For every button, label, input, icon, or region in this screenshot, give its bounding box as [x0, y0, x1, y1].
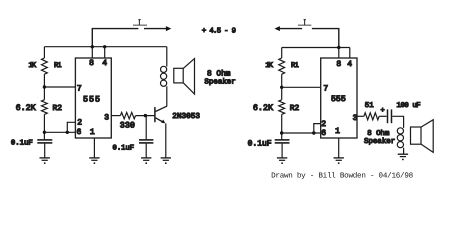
junction dot pin8 feed	[91, 45, 94, 48]
wire: right column top	[281, 48, 283, 59]
svg-text:8: 8	[89, 59, 94, 68]
wire: pin 6 line (right)	[282, 132, 321, 134]
svg-text:4: 4	[102, 59, 107, 68]
svg-text:0.1uF: 0.1uF	[248, 140, 272, 149]
wire: switch down to rail (right circuit)	[312, 29, 339, 48]
svg-text:+: +	[380, 107, 384, 115]
svg-text:2: 2	[321, 120, 326, 129]
resistor R1 1K (right)	[279, 58, 285, 74]
wire: pin 1 to ground (right)	[338, 138, 340, 158]
svg-text:4: 4	[347, 60, 352, 69]
wire: 330 to base	[136, 115, 155, 117]
speaker SP2 (right)	[411, 120, 434, 153]
svg-text:3: 3	[353, 114, 358, 123]
ground under emitter	[161, 158, 171, 164]
resistor 51	[364, 113, 379, 120]
svg-text:6.2K: 6.2K	[253, 103, 274, 113]
junction node pin7	[43, 85, 46, 88]
ground under pin 1 (right)	[334, 158, 344, 164]
wire: R1 to R2 (right)	[281, 74, 283, 100]
junction node base/cap	[144, 114, 147, 117]
svg-text:8 Ohm: 8 Ohm	[367, 129, 390, 138]
svg-text:7: 7	[77, 84, 82, 93]
svg-text:2N3053: 2N3053	[172, 112, 200, 121]
svg-text:R1: R1	[54, 62, 62, 70]
capacitor C2 0.1uF (middle)	[139, 116, 153, 158]
svg-text:R2: R2	[53, 104, 63, 113]
svg-text:1K: 1K	[29, 62, 37, 70]
wire: R2 down to capacitor (right)	[281, 114, 283, 139]
wire: R1 to R2	[43, 74, 45, 100]
resistor R2 6.2K (right)	[279, 100, 285, 115]
pushbutton switch S1	[133, 20, 147, 26]
wire: pin 3 output (right)	[357, 115, 364, 117]
junction node pin6	[43, 131, 46, 134]
junction dot pin4 feed	[103, 45, 106, 48]
junction node pin6 (right)	[280, 131, 283, 134]
wire: R2 down to capacitor	[43, 114, 45, 139]
svg-text:3: 3	[104, 114, 109, 123]
pushbutton switch S2	[298, 20, 311, 26]
capacitor C1 0.1uF (left)	[37, 140, 52, 158]
junction dot pin8 feed (right)	[337, 46, 340, 49]
svg-text:51: 51	[365, 102, 374, 110]
wire: pin 4 stub	[104, 47, 106, 58]
arrow to supply (right pointing)	[166, 26, 171, 31]
wire: 51 to cap	[379, 115, 387, 117]
wire: pin 2 bracket	[67, 122, 75, 132]
wire: pin 7	[44, 86, 75, 88]
resistor R1 1K (left)	[42, 58, 48, 74]
ground under pin 1	[89, 158, 99, 164]
junction dot pin2 bracket (right)	[312, 131, 315, 134]
wire: left column top	[43, 47, 45, 58]
svg-text:Speaker: Speaker	[364, 137, 395, 146]
wire: cap to coil	[392, 116, 403, 128]
svg-text:7: 7	[323, 85, 328, 94]
svg-text:0.1uF: 0.1uF	[11, 139, 33, 147]
svg-text:8: 8	[336, 60, 341, 69]
inductor: speaker voice coil (right)	[397, 128, 403, 154]
wire: pin 7 (right)	[282, 86, 321, 88]
svg-text:6: 6	[321, 129, 326, 138]
wire: pin 3 output	[111, 115, 120, 117]
svg-text:1: 1	[90, 128, 95, 137]
svg-text:1K: 1K	[265, 62, 273, 70]
wire: pin 2 bracket (right)	[314, 124, 321, 133]
resistor 330	[120, 112, 135, 118]
node: +V rail (left circuit)	[44, 46, 166, 48]
ground under C3	[277, 158, 287, 164]
svg-text:R1: R1	[291, 62, 299, 70]
arrow to supply (left pointing)	[275, 26, 280, 31]
svg-text:555: 555	[331, 95, 346, 104]
svg-text:8 Ohm: 8 Ohm	[207, 70, 231, 79]
svg-text:100 uF: 100 uF	[397, 102, 421, 110]
node: +V rail (right circuit)	[282, 47, 350, 49]
svg-text:Speaker: Speaker	[204, 78, 235, 87]
svg-text:6.2K: 6.2K	[16, 103, 37, 113]
op-amp: 555 timer U1 box	[75, 58, 111, 138]
ground under C1	[40, 158, 50, 164]
capacitor C3 0.1uF (right)	[275, 140, 290, 158]
svg-text:6: 6	[76, 128, 81, 137]
junction node pin7 (right)	[280, 86, 283, 89]
wire: pin 8 stub (right)	[338, 48, 340, 59]
svg-text:1: 1	[335, 127, 340, 136]
wire: pin 6 line	[44, 131, 75, 133]
resistor R2 6.2K (left)	[42, 100, 48, 115]
svg-text:330: 330	[120, 121, 135, 131]
junction dot pin2 bracket	[66, 131, 69, 134]
wire: switch to arrow	[144, 28, 166, 30]
capacitor C4 100uF electrolytic	[388, 109, 392, 123]
svg-text:R2: R2	[290, 104, 300, 113]
ground under C2	[141, 158, 151, 164]
speaker SP1 (left)	[174, 59, 195, 94]
op-amp: 555 timer U2 box	[321, 58, 357, 138]
svg-text:+ 4.5 - 9: + 4.5 - 9	[202, 28, 236, 36]
inductor: speaker voice coil (left)	[161, 47, 167, 107]
svg-text:555: 555	[83, 95, 100, 105]
transistor Q1 2N3053	[155, 106, 167, 157]
wire: pin 1 to ground	[93, 138, 95, 158]
wire: left supply feed up from rail to switch line	[92, 29, 138, 47]
wire: arrow to switch	[280, 28, 302, 30]
svg-text:Drawn by - Bill Bowden - 04/16: Drawn by - Bill Bowden - 04/16/98	[271, 171, 414, 180]
wire: pin 4 stub (right)	[349, 48, 351, 59]
ground under coil	[398, 154, 408, 160]
wire: pin 8 stub	[91, 47, 93, 58]
svg-text:0.1uF: 0.1uF	[113, 145, 135, 153]
svg-text:2: 2	[77, 119, 82, 128]
